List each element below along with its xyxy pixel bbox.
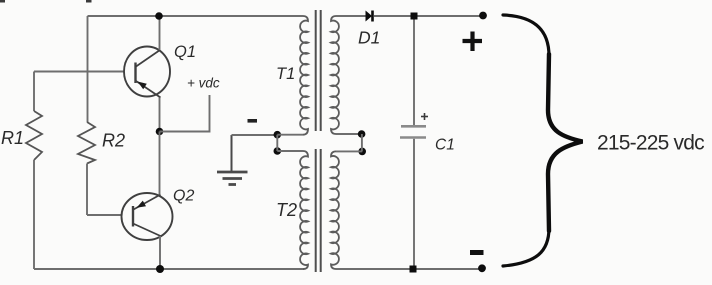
- svg-text:Q2: Q2: [173, 188, 194, 205]
- edge artifact top-middle: [86, 0, 92, 3]
- wire secondary lower top lead: [336, 150, 362, 152]
- junction square cap node bottom: [410, 266, 417, 273]
- wire secondary upper bottom lead: [336, 133, 362, 135]
- label minus (primary tap): [248, 119, 258, 123]
- wire cap node to minus terminal: [417, 268, 483, 270]
- wire +vdc stub: [160, 95, 210, 132]
- transformer secondary lower winding: [331, 151, 339, 269]
- transistor Q2: [122, 193, 173, 240]
- junction dot primary tap lower: [274, 147, 282, 155]
- junction dot emitter node: [156, 128, 164, 136]
- svg-text:+ vdc: + vdc: [187, 76, 220, 91]
- svg-text:R2: R2: [102, 131, 125, 151]
- wire Q1 collector: [159, 16, 161, 50]
- svg-text:R1: R1: [1, 128, 24, 148]
- terminal plus sign: [463, 32, 483, 52]
- brace: [503, 15, 583, 266]
- wire capacitor bottom lead: [413, 139, 415, 266]
- wire cap node to plus terminal: [418, 15, 483, 17]
- terminal minus sign: [470, 250, 484, 255]
- wire R1 bottom vertical: [33, 160, 35, 269]
- transformer T1 primary winding: [300, 16, 308, 135]
- junction dot secondary tap lower: [358, 148, 366, 156]
- edge artifact top-left: [0, 0, 5, 3]
- svg-text:C1: C1: [435, 137, 455, 154]
- wire secondary tap vertical: [361, 134, 363, 151]
- transformer secondary upper winding: [331, 16, 339, 134]
- transformer core top section: [316, 10, 321, 131]
- wire Q1 emitter to node: [159, 98, 161, 132]
- wire R2 bottom vertical: [86, 164, 88, 216]
- capacitor polarity plus: [421, 113, 428, 120]
- wire bottom rail right: [336, 268, 410, 270]
- wire Q2 emitter to node: [159, 132, 161, 195]
- wire secondary top to diode: [336, 15, 366, 17]
- junction dot bottom rail: [156, 265, 164, 273]
- wire Q2 collector to bottom rail: [159, 236, 161, 269]
- wire bottom rail left: [34, 268, 304, 270]
- terminal dot plus: [479, 12, 487, 20]
- svg-text:D1: D1: [358, 28, 380, 48]
- svg-text:T1: T1: [276, 65, 295, 83]
- junction dot primary tap upper: [274, 131, 282, 139]
- transformer core bottom section: [316, 149, 321, 272]
- wire Q2 base: [87, 214, 122, 216]
- resistor R1: [26, 111, 42, 160]
- svg-text:T2: T2: [276, 200, 297, 220]
- wire top rail: [88, 15, 304, 17]
- diode D1: [366, 11, 373, 22]
- transformer T2 primary winding: [300, 151, 308, 269]
- wire R1 top vertical: [33, 72, 35, 112]
- resistor R2: [78, 122, 95, 164]
- svg-text:Q1: Q1: [174, 43, 196, 61]
- wire tap vertical: [276, 135, 278, 151]
- capacitor C1: [400, 126, 426, 137]
- wire ground to tap: [232, 134, 278, 136]
- transistor Q1: [124, 47, 170, 98]
- wire capacitor top lead: [413, 20, 415, 126]
- junction square cap node top: [411, 13, 418, 20]
- wire diode to cap node: [374, 15, 411, 17]
- junction dot Q1 collector / top rail: [155, 12, 163, 20]
- terminal dot minus: [478, 264, 486, 272]
- wire T2 primary top lead: [277, 150, 303, 152]
- wire R2 top vertical: [87, 16, 89, 122]
- svg-text:215-225 vdc: 215-225 vdc: [597, 132, 704, 155]
- wire Q1 base: [34, 71, 125, 73]
- junction dot secondary tap upper: [358, 130, 366, 138]
- ground: [217, 135, 248, 185]
- wire T1 primary bottom lead: [277, 134, 303, 136]
